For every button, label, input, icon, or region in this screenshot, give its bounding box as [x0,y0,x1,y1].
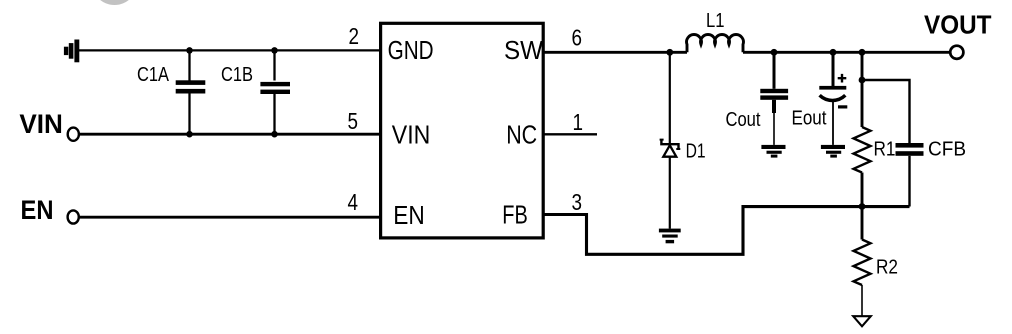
svg-text:3: 3 [572,189,583,215]
ground (Cout) [761,145,785,158]
node junction R1/CFB top [859,77,866,84]
node junction C1A bottom [186,131,193,138]
ground (Eout) [821,145,845,158]
capacitor Eout (electrolytic) [819,52,847,145]
watermark gray circle [92,0,138,5]
svg-text:2: 2 [349,23,360,49]
capacitor CFB [862,80,924,207]
wire GND net (ground to pin 2) [79,49,381,51]
svg-text:NC: NC [506,120,537,150]
svg-text:1: 1 [573,109,584,135]
wire EN net (terminal to pin 4) [80,216,381,219]
svg-text:FB: FB [502,200,528,230]
svg-text:Cout: Cout [726,109,761,131]
svg-text:D1: D1 [686,141,706,163]
svg-text:C1A: C1A [137,64,170,86]
terminal VOUT [950,46,963,59]
node junction Cout top [771,49,778,56]
svg-text:EN: EN [21,195,54,225]
op-amp U1 (converter IC box) [381,23,544,238]
resistor R1 [854,52,871,206]
terminal EN [68,210,79,223]
svg-text:4: 4 [348,189,359,215]
ground (D1) [659,229,681,244]
svg-text:VIN: VIN [392,120,431,150]
capacitor C1B [260,50,290,134]
ground arrow (R2) [853,316,871,326]
wire SW output net (L1 to VOUT) [743,51,950,54]
svg-text:SW: SW [504,35,543,65]
svg-text:EN: EN [393,200,425,230]
capacitor C1A [176,50,206,134]
svg-text:CFB: CFB [928,139,966,161]
node junction Eout top [830,49,837,56]
svg-text:C1B: C1B [221,64,253,86]
svg-text:L1: L1 [706,10,725,32]
diode D1 (Schottky) [660,52,681,228]
inductor L1 [687,35,744,53]
node junction D1 top [666,49,673,56]
node junction FB/R1/R2 [859,203,866,210]
node junction R1 top [859,49,866,56]
svg-text:VOUT: VOUT [924,10,992,40]
resistor R2 [854,207,871,317]
node junction C1B top [271,47,278,54]
wire SW net (pin 6 to VOUT, before L1) [543,51,687,54]
svg-text:VIN: VIN [19,109,63,139]
svg-text:6: 6 [572,25,583,51]
wire NC stub (pin 1) [543,133,597,135]
svg-text:GND: GND [388,35,434,65]
svg-text:Eout: Eout [792,108,827,130]
svg-text:5: 5 [348,108,359,134]
ground (chassis, left of GND net) [64,40,79,63]
wire FB route (pin 3 to feedback node) [543,207,909,255]
wire VIN net (terminal to pin 5) [80,133,381,136]
svg-text:R2: R2 [876,257,898,279]
terminal VIN [68,128,79,141]
node junction C1B bottom [271,131,278,138]
node junction C1A top [186,47,193,54]
capacitor Cout [760,52,788,145]
svg-text:R1: R1 [874,139,896,161]
